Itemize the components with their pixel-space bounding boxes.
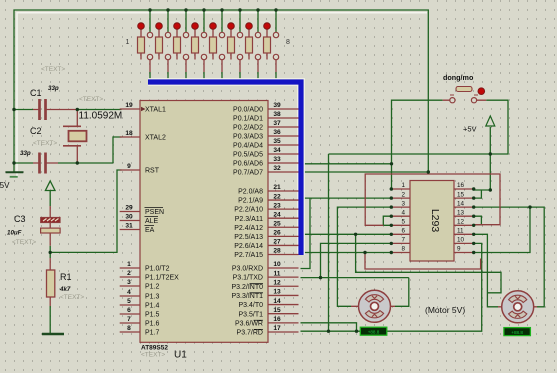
svg-text:33: 33 <box>273 156 281 163</box>
svg-text:35: 35 <box>273 138 281 145</box>
svg-text:26: 26 <box>273 230 281 237</box>
svg-text:P0.0/AD0: P0.0/AD0 <box>233 107 263 114</box>
svg-text:-5V: -5V <box>0 181 10 190</box>
svg-text:11: 11 <box>457 228 464 235</box>
svg-text:<TEXT>: <TEXT> <box>41 66 65 73</box>
svg-text:P3.7/RD: P3.7/RD <box>237 330 263 337</box>
svg-text:P0.1/AD1: P0.1/AD1 <box>233 116 263 123</box>
svg-text:P1.4: P1.4 <box>145 303 160 310</box>
svg-text:P0.3/AD3: P0.3/AD3 <box>233 134 263 141</box>
svg-text:P2.7/A15: P2.7/A15 <box>234 252 263 259</box>
svg-text:10: 10 <box>457 237 465 244</box>
svg-text:P2.2/A10: P2.2/A10 <box>234 207 263 214</box>
svg-text:ALE: ALE <box>145 218 159 225</box>
svg-text:C3: C3 <box>14 214 26 224</box>
svg-text:dong/mo: dong/mo <box>443 73 474 82</box>
svg-text:AT89S52: AT89S52 <box>141 345 168 352</box>
svg-text:15: 15 <box>457 191 465 198</box>
svg-text:3: 3 <box>401 200 405 207</box>
svg-text:RST: RST <box>145 168 160 175</box>
svg-text:29: 29 <box>125 205 133 212</box>
svg-text:7: 7 <box>127 316 131 323</box>
svg-text:P3.0/RXD: P3.0/RXD <box>232 266 263 273</box>
svg-text:16: 16 <box>273 316 281 323</box>
svg-text:P1.7: P1.7 <box>145 330 160 337</box>
svg-text:19: 19 <box>125 102 133 109</box>
svg-text:C1: C1 <box>30 88 42 98</box>
svg-text:13: 13 <box>273 289 281 296</box>
svg-text:P1.2: P1.2 <box>145 284 160 291</box>
svg-text:XTAL2: XTAL2 <box>145 135 166 142</box>
svg-text:P2.0/A8: P2.0/A8 <box>238 189 263 196</box>
svg-text:39: 39 <box>273 102 281 109</box>
svg-text:P1.3: P1.3 <box>145 294 160 301</box>
svg-text:<TEXT>: <TEXT> <box>12 239 36 246</box>
svg-text:5: 5 <box>401 219 405 226</box>
svg-text:P3.4/T0: P3.4/T0 <box>238 302 263 309</box>
svg-text:8: 8 <box>127 325 131 332</box>
svg-text:11.0592M: 11.0592M <box>79 111 123 122</box>
svg-text:P0.6/AD6: P0.6/AD6 <box>233 161 263 168</box>
svg-text:P3.6/WR: P3.6/WR <box>235 320 263 327</box>
svg-text:1: 1 <box>127 261 131 268</box>
svg-text:23: 23 <box>273 202 281 209</box>
svg-text:P2.5/A13: P2.5/A13 <box>234 234 263 241</box>
svg-text:EA: EA <box>145 227 155 234</box>
svg-text:P1.6: P1.6 <box>145 321 160 328</box>
svg-text:+88.8: +88.8 <box>511 330 523 335</box>
svg-text:P3.3/INT1: P3.3/INT1 <box>231 293 263 300</box>
svg-text:P1.1/T2EX: P1.1/T2EX <box>145 275 179 282</box>
svg-text:P2.4/A12: P2.4/A12 <box>234 225 263 232</box>
svg-text:6: 6 <box>401 228 405 235</box>
svg-text:32: 32 <box>273 165 281 172</box>
svg-text:16: 16 <box>457 182 465 189</box>
svg-text:<TEXT>: <TEXT> <box>33 140 57 147</box>
svg-text:27: 27 <box>273 239 281 246</box>
svg-text:1: 1 <box>126 39 130 46</box>
svg-text:+5V: +5V <box>463 125 477 134</box>
svg-text:28: 28 <box>273 248 281 255</box>
svg-text:12: 12 <box>273 279 281 286</box>
svg-text:13: 13 <box>457 209 465 216</box>
svg-text:6: 6 <box>127 307 131 314</box>
svg-text:14: 14 <box>457 200 465 207</box>
svg-text:C2: C2 <box>30 126 42 136</box>
svg-text:37: 37 <box>273 120 281 127</box>
svg-text:24: 24 <box>273 211 281 218</box>
svg-text:30: 30 <box>125 214 133 221</box>
svg-text:U1: U1 <box>174 350 187 361</box>
svg-text:<TEXT>: <TEXT> <box>60 294 84 301</box>
svg-text:P2.3/A11: P2.3/A11 <box>235 216 263 223</box>
svg-text:P0.4/AD4: P0.4/AD4 <box>233 143 263 150</box>
svg-text:3: 3 <box>127 279 131 286</box>
svg-text:4: 4 <box>127 289 131 296</box>
svg-text:14: 14 <box>273 298 281 305</box>
svg-text:P3.5/T1: P3.5/T1 <box>238 311 263 318</box>
svg-text:33p: 33p <box>48 85 59 92</box>
svg-text:4k7: 4k7 <box>59 286 71 293</box>
svg-text:10: 10 <box>273 261 281 268</box>
svg-text:21: 21 <box>273 184 281 191</box>
svg-text:7: 7 <box>401 237 405 244</box>
svg-text:<TEXT>: <TEXT> <box>79 96 103 103</box>
svg-text:L293: L293 <box>429 209 441 233</box>
svg-text:P2.6/A14: P2.6/A14 <box>234 243 263 250</box>
svg-text:33p: 33p <box>20 150 31 157</box>
svg-text:22: 22 <box>273 193 281 200</box>
svg-text:P0.5/AD5: P0.5/AD5 <box>233 152 263 159</box>
svg-text:36: 36 <box>273 129 281 136</box>
svg-text:25: 25 <box>273 220 281 227</box>
svg-text:(Motor 5V): (Motor 5V) <box>425 305 465 315</box>
svg-text:P1.5: P1.5 <box>145 312 160 319</box>
svg-text:XTAL1: XTAL1 <box>145 107 166 114</box>
svg-text:10uF: 10uF <box>7 230 22 237</box>
svg-text:1: 1 <box>401 182 405 189</box>
svg-text:38: 38 <box>273 111 281 118</box>
svg-text:15: 15 <box>273 307 281 314</box>
svg-text:5: 5 <box>127 298 131 305</box>
svg-text:31: 31 <box>125 223 133 230</box>
svg-text:17: 17 <box>273 325 281 332</box>
svg-text:9: 9 <box>127 163 131 170</box>
svg-text:P3.1/TXD: P3.1/TXD <box>233 275 263 282</box>
svg-text:<TEXT>: <TEXT> <box>141 352 165 359</box>
svg-text:9: 9 <box>457 246 461 253</box>
svg-text:8: 8 <box>401 246 405 253</box>
svg-text:P2.1/A9: P2.1/A9 <box>238 198 263 205</box>
svg-text:18: 18 <box>125 130 133 137</box>
svg-text:4: 4 <box>401 209 405 216</box>
svg-text:11: 11 <box>274 270 281 277</box>
svg-text:2: 2 <box>401 191 405 198</box>
svg-text:P1.0/T2: P1.0/T2 <box>145 266 170 273</box>
svg-text:+88.8: +88.8 <box>368 330 380 335</box>
svg-text:8: 8 <box>286 39 290 46</box>
svg-text:12: 12 <box>457 219 465 226</box>
svg-text:34: 34 <box>273 147 281 154</box>
svg-text:P0.2/AD2: P0.2/AD2 <box>233 125 263 132</box>
svg-text:R1: R1 <box>60 272 72 282</box>
svg-text:P3.2/INT0: P3.2/INT0 <box>231 284 263 291</box>
svg-text:2: 2 <box>127 270 131 277</box>
svg-text:P0.7/AD7: P0.7/AD7 <box>233 170 263 177</box>
svg-text:PSEN: PSEN <box>145 209 164 216</box>
